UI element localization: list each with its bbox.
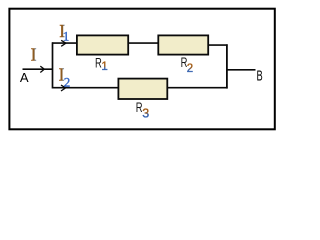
svg-text:A: A bbox=[20, 70, 29, 85]
wire junction to B bbox=[227, 69, 256, 71]
wire A to junction bbox=[23, 68, 54, 70]
right junction vertical wire bbox=[226, 44, 228, 88]
wire R1 to R2 bbox=[129, 42, 158, 44]
resistor R1 bbox=[77, 35, 128, 54]
svg-text:2: 2 bbox=[64, 75, 70, 90]
resistor R3 bbox=[118, 79, 167, 99]
wire R3 to right junction bbox=[167, 87, 227, 89]
resistor R2 bbox=[158, 35, 208, 54]
svg-text:B: B bbox=[257, 69, 263, 85]
svg-text:1: 1 bbox=[63, 28, 70, 43]
current arrow I1 bbox=[61, 40, 66, 46]
current arrow I2 bbox=[61, 85, 66, 91]
svg-text:3: 3 bbox=[142, 107, 149, 121]
svg-text:2: 2 bbox=[187, 63, 193, 75]
svg-text:I: I bbox=[31, 45, 37, 65]
wire junction to R3 bbox=[52, 87, 118, 89]
left junction vertical wire bbox=[52, 42, 54, 88]
svg-text:1: 1 bbox=[101, 61, 107, 73]
wire R2 to right junction bbox=[208, 44, 228, 46]
current arrow I bbox=[40, 66, 44, 72]
wire junction to R1 bbox=[52, 42, 77, 44]
